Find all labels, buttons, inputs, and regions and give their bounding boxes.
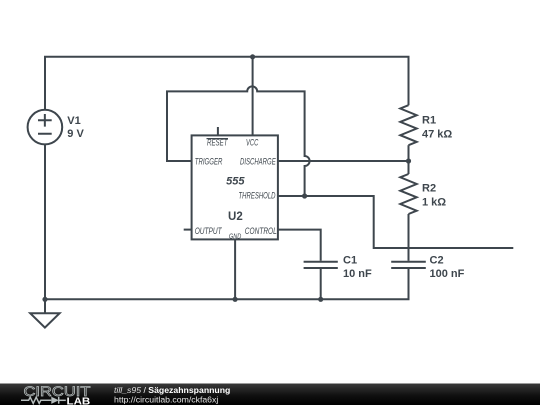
- svg-text:R1: R1: [422, 115, 436, 127]
- svg-text:GND: GND: [229, 232, 242, 241]
- svg-text:VCC: VCC: [246, 138, 259, 148]
- svg-text:OUTPUT: OUTPUT: [195, 226, 223, 236]
- svg-text:DISCHARGE: DISCHARGE: [240, 156, 276, 166]
- svg-text:10 nF: 10 nF: [343, 268, 372, 280]
- svg-text:http://circuitlab.com/ckfa6xj: http://circuitlab.com/ckfa6xj: [114, 395, 218, 405]
- svg-text:CONTROL: CONTROL: [245, 226, 277, 236]
- svg-text:555: 555: [226, 175, 245, 187]
- svg-text:47 kΩ: 47 kΩ: [422, 129, 452, 141]
- svg-text:TRIGGER: TRIGGER: [195, 156, 223, 166]
- svg-text:1 kΩ: 1 kΩ: [422, 197, 446, 209]
- svg-text:U2: U2: [228, 211, 243, 223]
- svg-text:9 V: 9 V: [67, 128, 84, 140]
- svg-text:C1: C1: [343, 255, 357, 267]
- svg-text:V1: V1: [67, 115, 80, 127]
- svg-text:LAB: LAB: [67, 395, 91, 405]
- svg-text:C2: C2: [430, 255, 444, 267]
- svg-text:THRESHOLD: THRESHOLD: [239, 190, 276, 200]
- svg-text:till_s95 / Sägezahnspannung: till_s95 / Sägezahnspannung: [114, 385, 230, 395]
- svg-text:100 nF: 100 nF: [430, 268, 465, 280]
- svg-text:R2: R2: [422, 183, 436, 195]
